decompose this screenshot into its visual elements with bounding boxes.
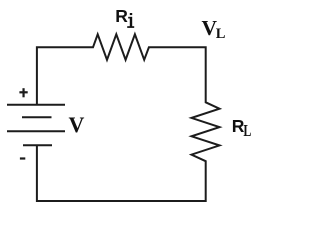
svg-text:R: R	[115, 6, 128, 26]
svg-text:L: L	[243, 122, 251, 141]
svg-text:V: V	[69, 112, 85, 137]
svg-text:L: L	[216, 26, 226, 42]
